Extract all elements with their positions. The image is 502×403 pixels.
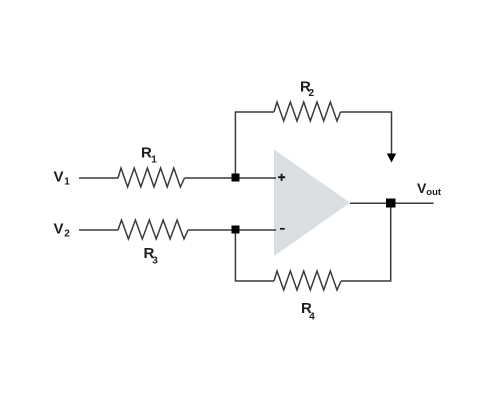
- node A junction (non-inverting input node): [232, 174, 240, 182]
- node B junction (inverting input node): [232, 226, 240, 234]
- svg-text:1: 1: [151, 155, 157, 166]
- resistor R4: [274, 271, 341, 290]
- arrowhead (feedback direction into output node): [387, 154, 396, 163]
- svg-text:2: 2: [309, 88, 315, 99]
- label R1: [141, 145, 157, 166]
- wire op-amp output: [350, 202, 434, 204]
- svg-text:V: V: [54, 221, 64, 238]
- resistor R3: [118, 220, 188, 239]
- wire node B down and right to R4: [235, 234, 274, 282]
- wire R4 right and up to output node C: [341, 208, 391, 282]
- node C junction (output node): [386, 199, 396, 208]
- op-amp U1 pin label - (inverting input): [280, 228, 285, 230]
- wire R1 to node A: [185, 177, 232, 179]
- wire R2 right and down to arrow: [341, 112, 392, 154]
- wire node A to op-amp + input: [240, 177, 277, 179]
- svg-text:out: out: [426, 187, 442, 198]
- label R4: [301, 300, 315, 323]
- resistor R1: [118, 168, 185, 187]
- svg-text:2: 2: [64, 229, 70, 240]
- label V1: [54, 169, 71, 188]
- op-amp U1: [274, 150, 350, 257]
- wire V2 input lead: [79, 229, 118, 231]
- wire node B to op-amp - input: [240, 229, 277, 231]
- label Vout: [417, 180, 442, 198]
- wire V1 input lead: [79, 177, 118, 179]
- svg-text:V: V: [54, 169, 64, 186]
- wire R3 to node B: [188, 229, 232, 231]
- label V2: [54, 221, 71, 240]
- svg-text:1: 1: [64, 177, 70, 188]
- label R2: [300, 79, 315, 100]
- wire node A up and right to R2: [235, 112, 274, 174]
- op-amp U1 pin label + (non-inverting input): [278, 174, 285, 181]
- svg-text:3: 3: [152, 256, 158, 267]
- resistor R2: [274, 102, 341, 121]
- svg-text:4: 4: [309, 312, 315, 323]
- label R3: [144, 245, 159, 267]
